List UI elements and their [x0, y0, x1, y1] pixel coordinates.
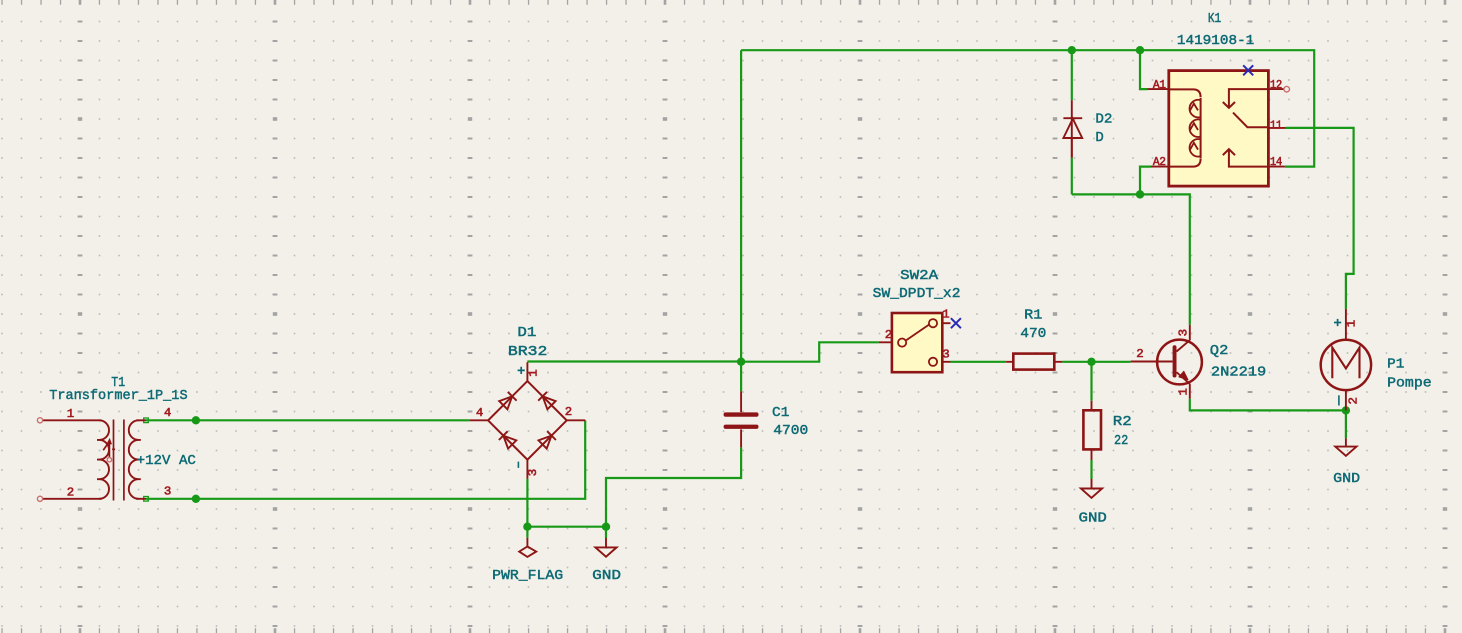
svg-text:1: 1 [527, 370, 541, 377]
svg-text:PWR_FLAG: PWR_FLAG [492, 568, 563, 584]
svg-text:D2: D2 [1095, 111, 1112, 127]
svg-text:R1: R1 [1024, 308, 1042, 324]
svg-text:4: 4 [476, 406, 483, 420]
svg-text:2N2219: 2N2219 [1211, 365, 1266, 381]
svg-text:D1: D1 [517, 325, 536, 341]
svg-text:R2: R2 [1113, 414, 1132, 430]
svg-text:C1: C1 [772, 405, 789, 421]
svg-text:11: 11 [1270, 118, 1282, 132]
svg-text:3: 3 [164, 484, 171, 498]
svg-text:3: 3 [942, 347, 949, 361]
svg-text:P1: P1 [1387, 356, 1404, 372]
svg-text:3: 3 [1177, 329, 1191, 336]
svg-text:+12V AC: +12V AC [137, 453, 196, 469]
svg-text:BR32: BR32 [508, 344, 548, 360]
svg-text:Pompe: Pompe [1387, 375, 1432, 391]
svg-text:2: 2 [885, 328, 892, 342]
svg-text:12: 12 [1270, 78, 1282, 92]
svg-text:2: 2 [565, 405, 572, 419]
svg-text:1: 1 [1345, 320, 1359, 327]
svg-text:A1: A1 [1153, 78, 1166, 92]
svg-text:2: 2 [1136, 347, 1143, 361]
svg-text:22: 22 [1114, 433, 1128, 449]
svg-text:1: 1 [1177, 389, 1191, 396]
svg-text:2: 2 [67, 485, 74, 499]
svg-text:K1: K1 [1208, 11, 1221, 27]
svg-text:470: 470 [1020, 326, 1046, 342]
svg-text:14: 14 [1270, 155, 1282, 169]
svg-text:Transformer_1P_1S: Transformer_1P_1S [49, 388, 187, 404]
svg-text:GND: GND [1079, 511, 1107, 527]
svg-text:A2: A2 [1153, 155, 1166, 169]
svg-text:GND: GND [592, 568, 621, 584]
svg-text:1: 1 [67, 407, 74, 421]
svg-text:1419108-1: 1419108-1 [1177, 33, 1254, 49]
svg-text:3: 3 [526, 469, 540, 476]
svg-text:4: 4 [164, 406, 171, 420]
svg-text:SW2A: SW2A [900, 268, 939, 284]
svg-text:2: 2 [1347, 398, 1361, 405]
svg-text:D: D [1095, 130, 1103, 146]
svg-text:GND: GND [1333, 471, 1360, 487]
svg-text:SW_DPDT_x2: SW_DPDT_x2 [873, 286, 961, 302]
svg-text:4700: 4700 [773, 423, 808, 439]
svg-text:1: 1 [942, 307, 949, 321]
svg-text:Q2: Q2 [1210, 343, 1229, 359]
